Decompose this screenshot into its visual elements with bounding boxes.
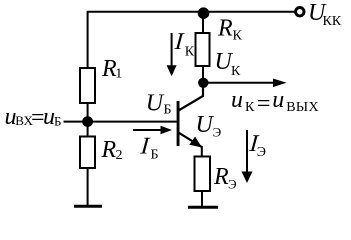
svg-text:Б: Б bbox=[164, 103, 172, 118]
svg-text:Б: Б bbox=[151, 148, 159, 163]
svg-text:u: u bbox=[231, 87, 243, 113]
svg-text:R: R bbox=[217, 15, 233, 41]
svg-text:=: = bbox=[255, 91, 271, 117]
svg-text:К: К bbox=[185, 44, 195, 59]
svg-text:U: U bbox=[146, 91, 165, 117]
svg-text:К: К bbox=[245, 100, 255, 115]
svg-text:Э: Э bbox=[213, 125, 222, 140]
svg-text:Б: Б bbox=[54, 113, 61, 128]
svg-text:Э: Э bbox=[228, 177, 237, 192]
svg-text:К: К bbox=[231, 64, 241, 79]
svg-text:Э: Э bbox=[257, 145, 266, 160]
svg-text:R: R bbox=[101, 137, 117, 163]
svg-text:1: 1 bbox=[115, 67, 122, 82]
svg-text:К: К bbox=[233, 29, 243, 44]
svg-text:u: u bbox=[272, 87, 284, 113]
svg-text:2: 2 bbox=[116, 148, 123, 163]
svg-text:ВЫХ: ВЫХ bbox=[286, 100, 319, 115]
svg-text:КК: КК bbox=[323, 14, 342, 29]
svg-text:R: R bbox=[213, 164, 229, 190]
